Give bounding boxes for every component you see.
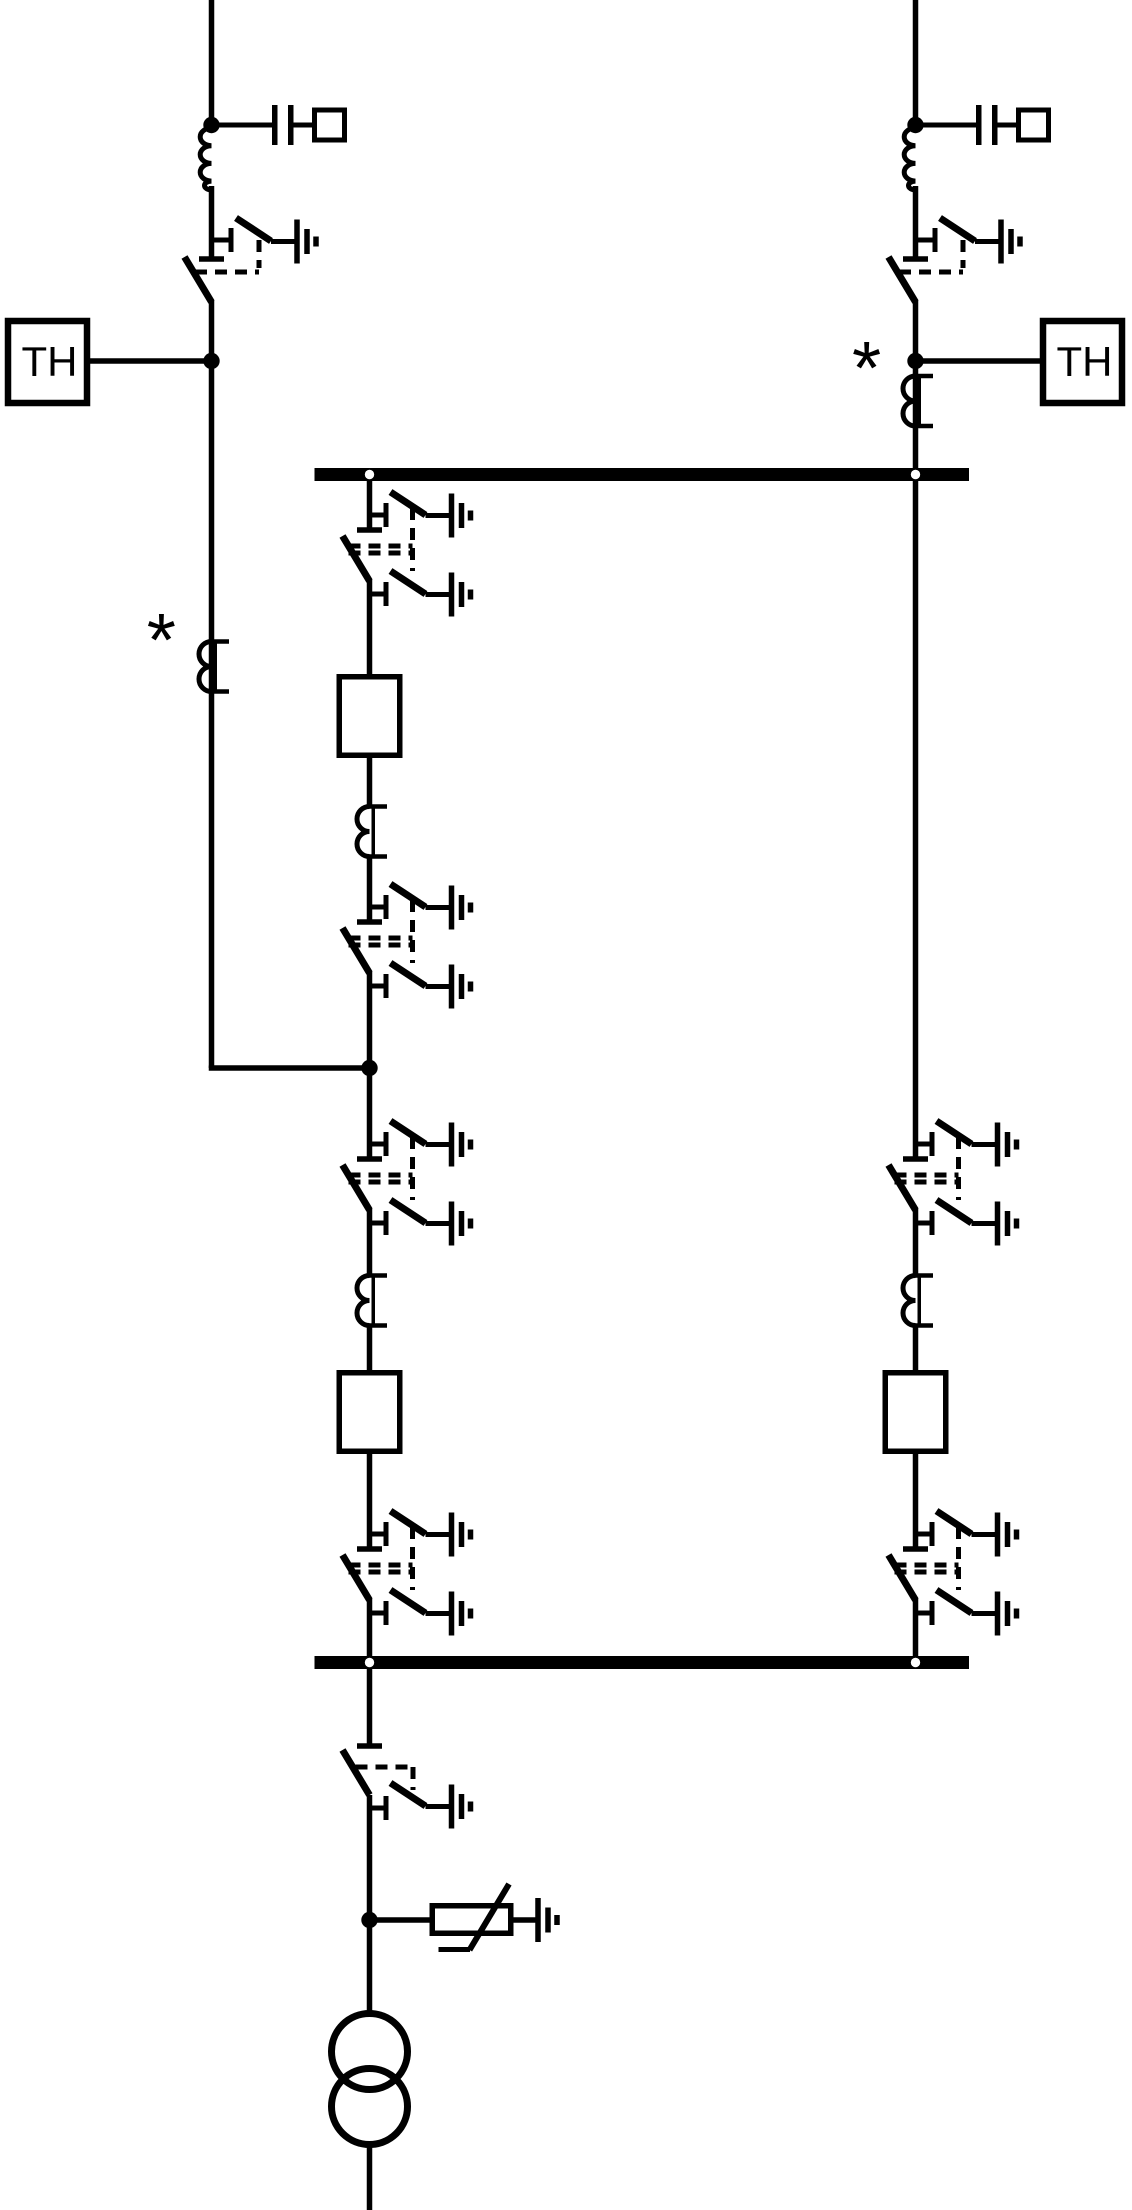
wire: left TH connection [90,358,212,364]
disconnector: middle lower busbar disconnector with two earthing switches [343,1511,474,1636]
wire: right bay from top busbar [913,481,919,1157]
disconnector: right busbar disconnector with two earthing switches [889,1511,1020,1636]
wire: CT to breaker [913,1324,919,1370]
wire: jumper from left feeder to transformer bay node [212,1066,370,1069]
wire: right feeder incoming overhead line [913,0,919,128]
disconnector: right upper line disconnector with two earthing switches [889,1121,1020,1246]
busbar: bottom busbar [315,1656,970,1669]
wire: middle bay from top busbar [367,481,373,528]
wire: breaker to CT [367,758,373,808]
capacitor: left coupling capacitor with coupling device box [212,105,345,145]
current transformer: middle lower CT [357,1275,387,1326]
wire: disconnector to transformer [367,1795,373,2011]
wire: to bottom busbar [913,1598,919,1656]
node: right TH tap junction [907,353,923,369]
node: bottom busbar tap right (open) [911,1658,920,1667]
wire: to right CT [913,1208,919,1277]
svg-text:TH: TH [22,338,78,385]
transformer: two-winding transformer [332,2014,408,2145]
wire: CT to breaker [367,1324,373,1370]
current transformer: left CT [199,641,229,692]
wire: left feeder down to jumper corner [209,300,215,1068]
node: top busbar tap middle (open) [365,470,374,479]
wire: to middle lower CT [367,1208,373,1277]
node: left TH tap junction [203,353,219,369]
disconnector: middle lower line disconnector with two earthing switches [343,1121,474,1246]
disconnector: right line disconnector with earthing switch [889,218,1023,302]
wire: CT to line disconnector [367,855,373,920]
svg-text:*: * [852,326,881,410]
wire: to bottom busbar [367,1598,373,1656]
inductor: left line trap coil [200,128,211,190]
node: left line trap tap junction [203,117,219,133]
TH box right [1043,321,1122,403]
wire: right line trap to disconnector [913,186,919,257]
node: right line trap tap junction [907,117,923,133]
inductor: right line trap coil [904,128,915,190]
capacitor: right coupling capacitor with coupling device box [916,105,1049,145]
wire: transformer feeder from bottom busbar [367,1669,373,1744]
node: transformer bay junction [361,1060,377,1076]
wire: breaker to busbar disconnector [367,1454,373,1547]
surge arrester: varistor with earth [370,1884,560,1950]
wire: right feeder down to top busbar [913,300,919,468]
wire: breaker to busbar disconnector [913,1454,919,1547]
current transformer: right lower CT [903,1275,933,1326]
node: surge arrester tap junction [361,1912,377,1928]
circuit breaker: middle lower breaker box [339,1373,400,1452]
wire: transformer low-voltage lead [367,2147,373,2210]
svg-text:TH: TH [1057,338,1113,385]
disconnector: transformer feeder disconnector with earthing switch [343,1743,474,1828]
wire: to circuit breaker [367,579,373,674]
wire: right TH connection [916,358,1041,364]
current transformer: middle upper CT [357,806,387,857]
wire: to transformer bay node [367,971,373,1157]
TH box left [8,321,87,403]
wire: left line trap to disconnector [209,186,215,257]
circuit breaker: right breaker box [885,1373,946,1452]
node: bottom busbar tap middle (open) [365,1658,374,1667]
circuit breaker: middle upper breaker box [339,677,400,756]
disconnector: middle upper busbar disconnector with two earthing switches [343,492,474,617]
disconnector: left line disconnector with earthing switch [185,218,319,302]
wire: left feeder incoming overhead line [209,0,215,128]
current transformer: right CT [903,376,933,427]
svg-text:*: * [147,598,176,682]
disconnector: middle upper line disconnector with two earthing switches [343,884,474,1009]
node: top busbar tap right (open) [911,470,920,479]
busbar: top busbar [315,468,970,481]
